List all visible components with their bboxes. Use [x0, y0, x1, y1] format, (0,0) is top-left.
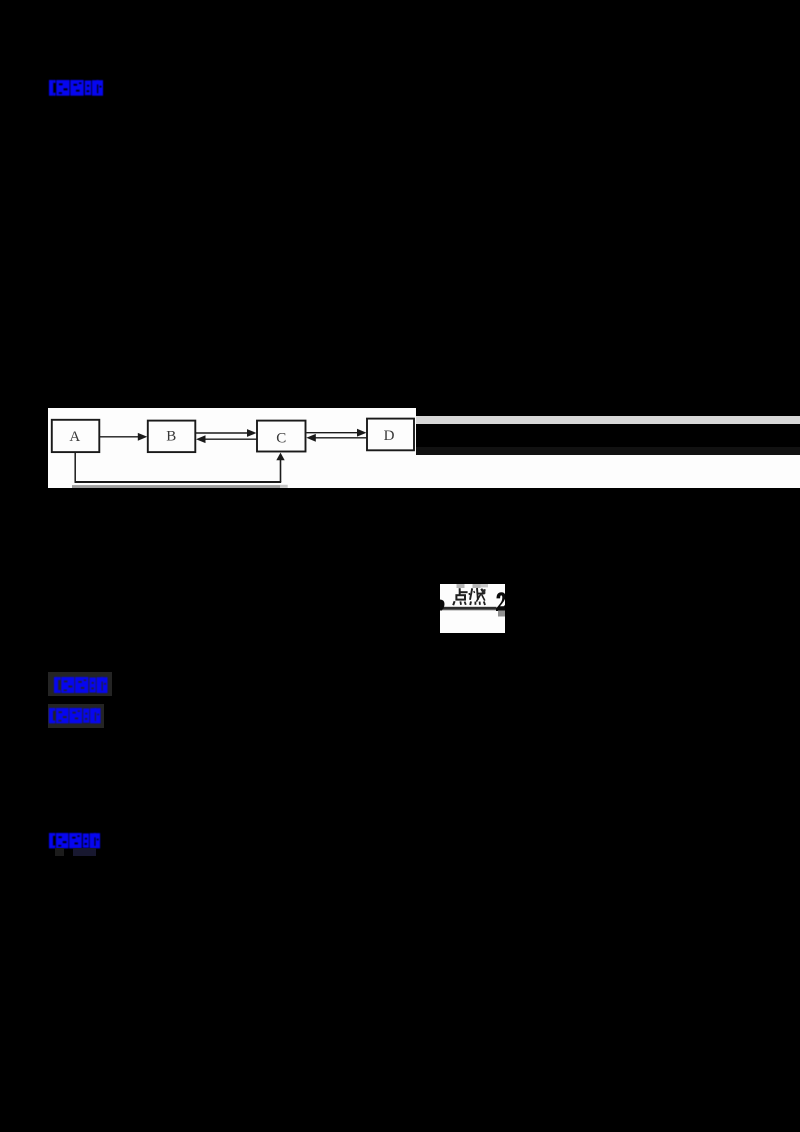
arrow A to B — [100, 435, 140, 437]
svg-text:C: C — [276, 430, 286, 446]
label L2 [考点] blue text — [54, 676, 109, 694]
svg-text:D: D — [384, 427, 395, 443]
label L3 [分析] gray highlight box — [48, 704, 104, 728]
box B — [148, 420, 196, 452]
light gray strip right of flowchart — [416, 416, 800, 424]
label L2 [考点] gray highlight box — [48, 672, 112, 695]
char dian — [453, 588, 467, 605]
arrow C to D top — [307, 431, 359, 433]
gray patch right below 2 — [498, 610, 505, 616]
arrowhead up into C — [276, 452, 284, 460]
box C — [257, 420, 306, 451]
equation drawing: dian ran over arrow — [440, 584, 505, 633]
arrow D to C bottom — [316, 436, 367, 438]
arrow shaft line — [440, 606, 496, 609]
box D — [367, 418, 414, 450]
flowchart image white background — [48, 408, 416, 488]
dark strip right of flowchart — [416, 447, 800, 455]
arrow B to C top — [196, 432, 249, 434]
svg-text:B: B — [166, 428, 176, 444]
bold 2 right — [496, 592, 505, 610]
label L4 [解答] blue text — [49, 832, 101, 849]
gray patches top — [456, 584, 464, 588]
comma at left edge — [440, 599, 445, 611]
box A — [52, 419, 100, 451]
label L3 [分析] blue text — [49, 707, 102, 724]
flowchart drawing — [48, 408, 416, 488]
gray shadow under bottom wire — [72, 485, 280, 488]
arrow C to B bottom — [205, 438, 257, 440]
white band right of flowchart — [416, 455, 800, 488]
faint marks under L4 — [55, 848, 64, 856]
wire up into C — [280, 458, 282, 482]
equation image white background — [440, 584, 505, 633]
char ran — [469, 588, 485, 605]
wire bottom horizontal — [75, 481, 282, 483]
svg-text:A: A — [69, 429, 80, 445]
label L1 [解答] blue heading top — [49, 79, 104, 97]
wire A down — [74, 452, 76, 482]
